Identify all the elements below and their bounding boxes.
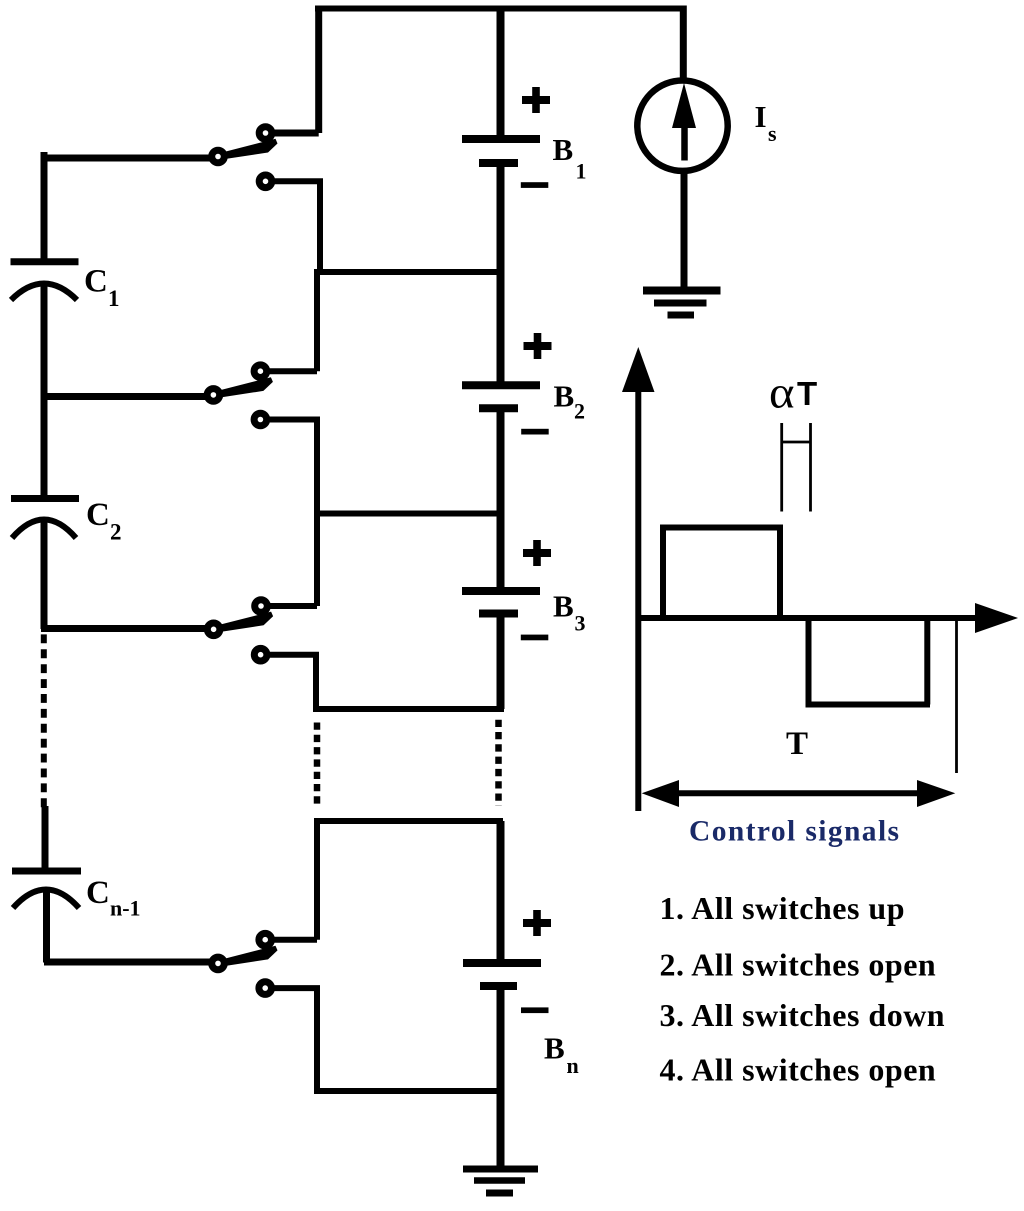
- node 4 wire (Bn+ side): [314, 818, 503, 824]
- switch SW1 lever: [219, 139, 278, 160]
- switch SW4 upper throw contact: [259, 933, 272, 946]
- svg-text:α: α: [769, 367, 795, 418]
- svg-text:B: B: [544, 1031, 565, 1066]
- svg-text:C: C: [84, 264, 108, 300]
- wire B1 to node 1: [497, 167, 505, 272]
- current source Is lead from top rail: [680, 6, 687, 83]
- node 2 wire (B2- / B3+): [314, 511, 500, 517]
- wire SW1 lower throw to node 1: [272, 181, 320, 272]
- battery B3 plates: [462, 587, 540, 595]
- capacitor C1 top lead: [41, 152, 48, 259]
- wire SW2 lower throw to node 2: [267, 420, 317, 514]
- switch SW2 pole wire: [41, 393, 208, 400]
- label B3 plus: [523, 540, 551, 566]
- wire SW4 lower throw to bottom node: [272, 988, 317, 1091]
- battery column top lead: [497, 9, 505, 137]
- wire top rail: [315, 6, 687, 12]
- switch SW2 lever: [214, 377, 273, 398]
- capacitor C1: [11, 258, 79, 265]
- dashed wire continuation middle: [314, 723, 321, 806]
- waveform positive pulse: [663, 528, 780, 619]
- svg-text:1. All switches up: 1. All switches up: [660, 890, 905, 926]
- wire node4 to Bn: [497, 821, 505, 960]
- bottom node wire (Bn-): [314, 1088, 500, 1094]
- ground (current source): [643, 287, 721, 295]
- waveform negative pulse: [809, 618, 931, 705]
- svg-text:2. All switches open: 2. All switches open: [660, 946, 937, 982]
- capacitor C2 top lead: [41, 395, 48, 495]
- wire Bn to bottom node: [497, 990, 505, 1091]
- label Bn minus: [521, 1007, 549, 1013]
- switch SW2 upper throw contact: [254, 365, 267, 378]
- label B1 minus: [521, 182, 549, 188]
- label B3 minus: [521, 635, 549, 641]
- wire B3 to node 3: [497, 617, 505, 709]
- current source arrow: [681, 122, 688, 161]
- label B1 plus: [522, 87, 550, 113]
- node 3 wire (B3- side): [313, 706, 504, 712]
- ground (battery string): [463, 1166, 538, 1173]
- svg-text:C: C: [86, 875, 110, 911]
- capacitor Cn-1: [12, 868, 81, 875]
- wire node 1 down to SW2 upper throw: [267, 269, 317, 371]
- capacitor Cn-1 top lead: [42, 806, 49, 868]
- dashed wire continuation battery column: [495, 720, 502, 806]
- switch SW4 pole wire: [44, 959, 212, 966]
- wire node 4 down to SW4 upper throw: [272, 818, 317, 940]
- svg-text:n: n: [567, 1053, 579, 1078]
- alphaT tick marks: [780, 423, 783, 512]
- waveform vertical axis: [635, 390, 641, 811]
- node 1 wire (B1- / B2+): [317, 269, 500, 275]
- wire top-left vertical to SW1 upper throw: [272, 6, 319, 134]
- svg-text:1: 1: [576, 159, 587, 184]
- switch SW1 pole wire: [41, 155, 212, 162]
- svg-text:2: 2: [110, 520, 122, 545]
- capacitor C2: [11, 495, 79, 502]
- T period thin marker: [955, 621, 958, 774]
- svg-text:Control signals: Control signals: [689, 816, 900, 848]
- switch SW2 lower throw contact: [254, 413, 267, 426]
- svg-text:4. All switches open: 4. All switches open: [660, 1051, 937, 1087]
- wire node1 to B2: [497, 272, 505, 382]
- switch SW3 lever: [215, 612, 274, 633]
- switch SW4 pole contact: [212, 957, 225, 970]
- svg-text:1: 1: [108, 286, 120, 311]
- capacitor C2 bottom lead: [41, 520, 48, 629]
- svg-text:B: B: [554, 379, 575, 414]
- svg-text:n-1: n-1: [110, 896, 141, 921]
- switch SW1 lower throw contact: [259, 175, 272, 188]
- battery Bn plates: [463, 959, 541, 967]
- capacitor Cn-1 bottom lead: [43, 891, 50, 963]
- switch SW4 lever: [219, 946, 278, 967]
- label B2 minus: [521, 429, 549, 435]
- switch SW3 pole wire: [41, 625, 208, 632]
- label Bn plus: [523, 910, 551, 936]
- svg-text:C: C: [86, 497, 110, 533]
- svg-text:s: s: [768, 121, 777, 146]
- label B2 plus: [524, 333, 552, 359]
- svg-text:B: B: [553, 132, 574, 167]
- svg-text:T: T: [797, 375, 817, 412]
- wire bottom node to ground: [497, 1091, 505, 1166]
- dashed wire continuation left column: [41, 634, 47, 810]
- svg-text:T: T: [786, 726, 808, 762]
- wire node2 to B3: [497, 514, 505, 589]
- switch SW3 upper throw contact: [255, 600, 268, 613]
- switch SW3 pole contact: [207, 623, 220, 636]
- svg-text:3. All switches down: 3. All switches down: [660, 997, 946, 1033]
- current source bottom lead: [681, 170, 688, 288]
- switch SW4 lower throw contact: [259, 982, 272, 995]
- svg-text:2: 2: [574, 399, 585, 424]
- switch SW1 upper throw contact: [259, 127, 272, 140]
- wire SW3 lower throw to node 3: [267, 655, 316, 709]
- switch SW2 pole contact: [207, 389, 220, 402]
- current source Is circle: [637, 81, 727, 171]
- wire node 2 down to SW3 upper throw: [268, 510, 317, 606]
- switch SW1 pole contact: [212, 150, 225, 163]
- svg-text:I: I: [755, 99, 767, 134]
- svg-text:3: 3: [575, 611, 586, 636]
- battery B1 plates: [462, 135, 540, 143]
- capacitor C1 bottom lead: [41, 281, 48, 398]
- wire B2 to node 2: [497, 412, 505, 514]
- battery B2 plates: [462, 381, 540, 389]
- T double arrow: [660, 790, 935, 796]
- switch SW3 lower throw contact: [254, 648, 267, 661]
- svg-text:B: B: [553, 589, 574, 624]
- waveform horizontal axis: [638, 615, 980, 621]
